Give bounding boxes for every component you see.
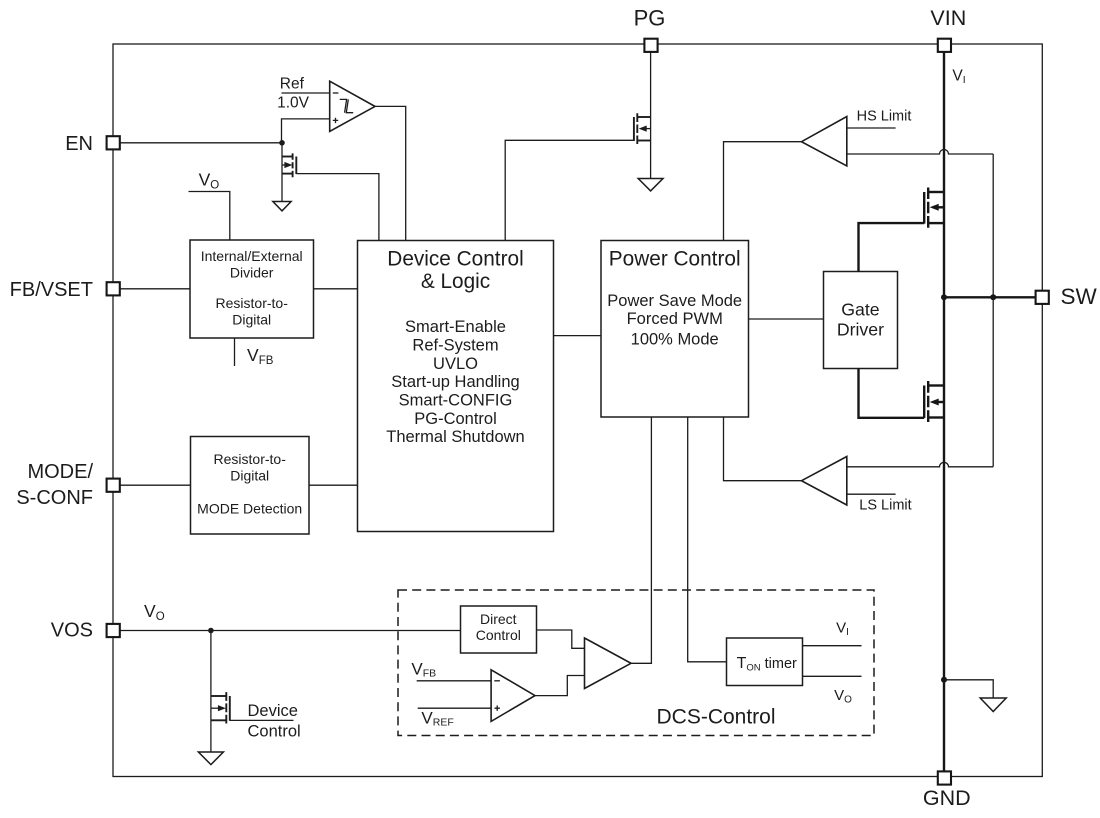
block Resistor-to-Digital MODE Detection	[191, 437, 310, 535]
svg-text:Smart-Enable: Smart-Enable	[405, 318, 506, 336]
svg-text:PG-Control: PG-Control	[414, 410, 497, 428]
svg-text:Ref-System: Ref-System	[412, 337, 498, 355]
svg-text:Control: Control	[248, 722, 301, 740]
ground internal right	[980, 698, 1006, 712]
wire Direct Control to driver upper input	[537, 630, 585, 648]
wire GND branch to internal ground	[944, 680, 993, 698]
wire SW node to SW pin (thick)	[944, 296, 1035, 298]
svg-text:FB/VSET: FB/VSET	[10, 279, 93, 301]
svg-text:Device Control: Device Control	[387, 247, 523, 270]
svg-text:VFB: VFB	[411, 660, 436, 680]
ground below Q2	[638, 179, 663, 191]
op-amp U1 EN comparator with hysteresis	[330, 81, 375, 131]
svg-text:Digital: Digital	[230, 468, 269, 484]
svg-text:Start-up Handling: Start-up Handling	[391, 373, 519, 391]
wire A2 upper input from SW sense with hop	[847, 462, 993, 467]
wire Ref 1.0V to comparator minus input	[282, 92, 330, 94]
svg-text:VO: VO	[834, 687, 852, 705]
svg-text:VI: VI	[836, 620, 849, 638]
block Ton timer	[727, 638, 803, 686]
svg-text:LS Limit: LS Limit	[859, 498, 911, 514]
node EN junction	[279, 140, 285, 146]
block Device Control & Logic	[358, 241, 554, 532]
pin EN	[107, 136, 120, 149]
pin MODE/S-CONF	[107, 479, 120, 492]
wire Gate Driver to Q4 gate (thick)	[859, 369, 925, 418]
svg-text:EN: EN	[65, 133, 93, 155]
svg-text:& Logic: & Logic	[421, 270, 490, 293]
op-amp U2 DCS comparator	[491, 670, 535, 722]
wire EN pin to junction	[121, 142, 283, 144]
node VOS junction	[208, 628, 214, 634]
svg-text:Control: Control	[476, 627, 521, 643]
wire U1 output to Device Control top	[375, 106, 406, 240]
svg-text:MODE/: MODE/	[27, 461, 93, 483]
svg-text:VO: VO	[199, 170, 220, 192]
svg-text:Gate: Gate	[841, 299, 880, 319]
wire V_REF to U2 plus	[418, 707, 491, 709]
chip boundary	[113, 44, 1042, 777]
wire divider to Device Control	[314, 288, 358, 290]
pin VOS	[107, 624, 120, 637]
wire Device Control to Power Control	[554, 335, 602, 337]
transistor Q2 PG open-drain nmos	[634, 113, 651, 178]
svg-text:Digital: Digital	[232, 312, 271, 328]
svg-text:VIN: VIN	[930, 6, 966, 30]
wire Power Control to Ton timer	[688, 417, 727, 662]
pin VIN	[938, 39, 951, 52]
svg-text:Direct: Direct	[480, 611, 517, 627]
wire V_FB stub	[234, 338, 236, 366]
wire VIN rail (thick)	[943, 52, 945, 771]
node GND branch junction	[941, 677, 947, 683]
wire A2 lower input stub	[847, 493, 896, 495]
wire V_FB to U2 minus	[417, 680, 491, 682]
wire VOS pin to DCS Direct Control	[121, 630, 461, 632]
svg-text:Driver: Driver	[837, 320, 884, 340]
wire Ton timer V_I input	[803, 645, 862, 647]
svg-text:Internal/External: Internal/External	[201, 248, 303, 264]
ground below Q5	[198, 752, 223, 765]
wire FB/VSET pin to divider	[121, 288, 191, 290]
wire EN junction to comparator plus input	[282, 119, 330, 143]
svg-text:HS Limit: HS Limit	[857, 108, 912, 124]
svg-text:Resistor-to-: Resistor-to-	[216, 295, 289, 311]
svg-text:PG: PG	[634, 6, 666, 31]
wire Q1 gate to Device Control top	[296, 174, 379, 241]
svg-text:MODE Detection: MODE Detection	[197, 500, 302, 516]
amp A2 LS current limit	[802, 457, 847, 506]
amp A1 HS current limit	[802, 117, 847, 166]
wire Q2 gate to Device Control top	[505, 140, 634, 240]
svg-text:1.0V: 1.0V	[277, 95, 310, 112]
node SW junction on rail	[941, 294, 947, 300]
svg-text:Power Control: Power Control	[609, 247, 741, 270]
transistor Q1 EN pulldown nmos	[282, 143, 296, 202]
wire MODE pin to detection box	[121, 484, 191, 486]
block Internal/External Divider	[190, 240, 314, 338]
transistor Q3 high-side nmos	[924, 188, 944, 228]
svg-text:Divider: Divider	[230, 264, 274, 280]
svg-text:Thermal Shutdown: Thermal Shutdown	[386, 428, 525, 446]
wire A2 output to Power Control bottom	[724, 417, 802, 481]
svg-text:GND: GND	[923, 786, 971, 810]
DCS-Control dashed boundary	[398, 590, 874, 736]
svg-text:TON timer: TON timer	[737, 655, 797, 673]
svg-text:Power Save Mode: Power Save Mode	[607, 292, 742, 310]
amp U3 DCS driver	[585, 638, 632, 689]
wire A1 output to Power Control top	[724, 142, 802, 241]
pin FB/VSET	[107, 282, 120, 295]
block Direct Control	[461, 606, 537, 653]
wire Gate Driver to Q3 gate (thick)	[859, 223, 925, 271]
wire Power Control to Gate Driver	[749, 318, 824, 320]
transistor Q4 low-side nmos	[924, 381, 944, 422]
svg-text:S-CONF: S-CONF	[16, 487, 93, 509]
wire PG pin to Q2 drain	[650, 52, 652, 117]
svg-text:VI: VI	[952, 68, 965, 86]
svg-text:Device: Device	[248, 702, 298, 720]
svg-text:100% Mode: 100% Mode	[631, 330, 719, 348]
block Gate Driver	[824, 272, 898, 369]
wire SW sense vertical upper	[992, 154, 994, 297]
svg-text:Resistor-to-: Resistor-to-	[214, 451, 287, 467]
wire U3 output to Power Control bottom	[631, 417, 651, 663]
svg-text:DCS-Control: DCS-Control	[656, 706, 775, 729]
transistor Q5 discharge nmos	[211, 631, 230, 753]
wire V_O stub to divider box	[189, 192, 230, 241]
svg-text:Forced PWM: Forced PWM	[627, 310, 723, 328]
svg-text:Smart-CONFIG: Smart-CONFIG	[399, 392, 513, 410]
wire A1 upper input stub	[847, 127, 896, 129]
svg-text:VREF: VREF	[421, 708, 453, 728]
wire Ton timer V_O input	[803, 675, 862, 677]
wire Q5 gate stub	[230, 719, 294, 721]
wire U2 output to driver lower input	[535, 676, 585, 696]
svg-text:Ref: Ref	[280, 75, 305, 92]
svg-text:UVLO: UVLO	[433, 355, 478, 373]
svg-text:VO: VO	[144, 601, 165, 623]
svg-text:VOS: VOS	[51, 620, 93, 642]
pin SW	[1036, 291, 1049, 304]
wire A1 lower input from SW sense with hop	[847, 150, 993, 155]
svg-text:SW: SW	[1061, 284, 1098, 309]
ground below Q1	[273, 202, 291, 211]
pin GND	[938, 771, 951, 784]
block Power Control	[601, 241, 749, 418]
wire SW sense vertical lower	[992, 297, 994, 467]
node SW sense junction	[990, 294, 996, 300]
svg-text:VFB: VFB	[247, 345, 274, 367]
pin PG	[644, 39, 657, 52]
wire detection box to Device Control	[309, 484, 358, 486]
